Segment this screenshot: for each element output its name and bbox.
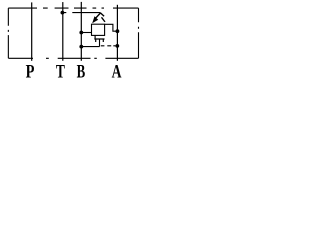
- valve arrow head: [92, 16, 98, 23]
- relief valve V1 body: [92, 24, 105, 35]
- plate outline top border (dash-dot): [8, 7, 138, 9]
- wire valve to A (stepped elbow): [105, 24, 118, 31]
- wire T to valve outlet (y=12.6): [62, 12, 100, 14]
- wire B junction to spring drop: [81, 46, 99, 48]
- svg-text:A: A: [112, 62, 122, 82]
- junction dot T line: [61, 11, 65, 15]
- valve spring (diagonal zigzag at top right): [100, 13, 105, 22]
- svg-text:T: T: [56, 62, 65, 82]
- junction dot A upper: [116, 29, 120, 33]
- junction dot B lower: [79, 45, 83, 49]
- spring under valve box: [94, 35, 104, 42]
- port line P: [31, 2, 33, 60]
- port line A: [116, 5, 118, 61]
- plate outline left border (dash-dot): [7, 8, 9, 58]
- svg-text:B: B: [77, 62, 86, 82]
- plate outline bottom border (dash-dot): [8, 57, 138, 59]
- wire B to valve inlet: [81, 32, 91, 34]
- port line B: [80, 2, 82, 61]
- pilot line (dashed) to A: [101, 45, 116, 47]
- plate outline right border (dash-dot): [138, 8, 140, 58]
- valve flow arrow shaft: [95, 13, 100, 19]
- port line T: [62, 2, 64, 61]
- wire valve spring side down to B line: [99, 39, 101, 47]
- junction dot B upper: [79, 31, 83, 35]
- junction dot A lower: [115, 44, 119, 48]
- svg-text:P: P: [26, 62, 35, 82]
